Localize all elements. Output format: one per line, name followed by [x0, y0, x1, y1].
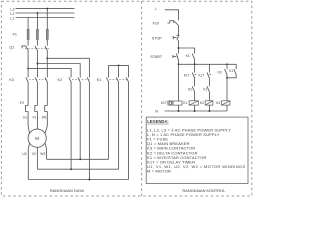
contactor K2 linkage dashed [72, 79, 89, 81]
wire rung 2 middle [194, 78, 196, 87]
wire W1 lead into motor [45, 121, 47, 133]
node dot phase 3 branch tap [46, 57, 48, 59]
wire U2 run to K1 right [28, 179, 128, 181]
wire rung 4 left lower [226, 74, 228, 77]
node dot bus at rung 1 [178, 63, 180, 65]
node junction dot L3 tap [46, 8, 48, 10]
contactor K2 blade 1 [69, 77, 71, 82]
overload relay F2 jog 3 [45, 106, 48, 122]
svg-text:K1T: K1T [184, 73, 190, 77]
wire K1 star bridge bus [109, 64, 129, 66]
breaker Q1 linkage dashed [25, 47, 50, 49]
svg-text:L3: L3 [10, 7, 14, 11]
wire U1 lead into motor [28, 121, 30, 134]
svg-text:U1: U1 [23, 116, 27, 120]
pushbutton STOP actuator [172, 36, 174, 39]
contactor K1 blade 2 [116, 77, 118, 82]
wire K1 left pole upper [108, 65, 110, 77]
wire V2 lead out of motor [36, 147, 38, 169]
legend box [146, 117, 248, 183]
svg-text:V2: V2 [32, 152, 36, 156]
node dot N at rung 2 [194, 110, 196, 112]
wire L3 bus [16, 8, 75, 10]
wire seal branch top [179, 48, 195, 54]
contactor K3 blade 2 [35, 77, 37, 82]
wire phase 1 Q1 to K3 [27, 51, 29, 78]
svg-text:L: L [155, 7, 157, 11]
wire N line [165, 110, 228, 112]
coil K1T clock circle [169, 102, 172, 105]
svg-text:F10: F10 [153, 22, 159, 26]
wire rung 3 upper [208, 64, 210, 72]
wire K3 pole 1 lower [27, 82, 29, 106]
contact K1T timed tick rung 3 [209, 73, 211, 75]
svg-text:W1: W1 [42, 116, 47, 120]
wire phase 3 Q1 to K3 [46, 51, 48, 78]
svg-text:L2: L2 [10, 12, 14, 16]
node dot K2 left joins V2 run [70, 168, 72, 170]
svg-text:K1T: K1T [199, 73, 205, 77]
wire rung 4 right branch [235, 64, 237, 69]
breaker Q1 latch hook [22, 46, 26, 49]
svg-text:LEGENDA:: LEGENDA: [147, 119, 168, 124]
pushbutton STOP contact tick top [176, 34, 179, 36]
wire K1 right pole upper [128, 65, 130, 77]
svg-text:L1: L1 [10, 16, 14, 20]
svg-text:K2: K2 [58, 78, 63, 82]
node dot rung 4 rejoin [226, 77, 228, 79]
contactor K1 linkage dashed [110, 79, 129, 81]
wire rung 2 upper [194, 64, 196, 72]
wire phase 2 fuse to Q1 [36, 39, 38, 45]
coil K2 diagonal [205, 101, 213, 105]
wire START to bus [178, 59, 180, 64]
contact K3 blade rung 4 [225, 69, 227, 75]
contactor K3 linkage dashed [29, 79, 47, 81]
svg-text:K1: K1 [186, 54, 190, 58]
wire L feed [165, 10, 179, 20]
contact K1T timed blade rung 3 [207, 72, 209, 78]
wire K1 middle pole upper [118, 65, 120, 77]
wire rung 1 K1T column [178, 64, 180, 101]
pushbutton START actuator [172, 55, 174, 58]
overload relay F2 jog 1 [26, 106, 29, 122]
node dot bus at rung 4 [226, 63, 228, 65]
coil K3 diagonal [222, 101, 231, 105]
svg-text:K1: K1 [203, 88, 207, 92]
coil K3 body [222, 101, 231, 105]
wire phase 2 Q1 to K3 [36, 51, 38, 78]
wire branch phase 3 to K2 right pole [47, 58, 89, 77]
pushbutton START stem [173, 56, 176, 58]
wire phase 3 drop from L3 [46, 9, 48, 30]
contact K2 interlock blade rung 2 [192, 86, 194, 92]
wire rung 3 middle [208, 78, 210, 87]
wire branch phase 2 to K2 middle pole [37, 64, 80, 78]
fuse F1 pole 3 [46, 29, 48, 39]
node dot N at rung 3 [208, 110, 210, 112]
breaker Q1 blade 1 [26, 46, 28, 51]
pushbutton START blade [176, 53, 178, 59]
node dot seal branch split [178, 47, 180, 49]
svg-text:K1T: K1T [161, 101, 167, 105]
breaker Q1 blade 2 [35, 46, 37, 51]
svg-text:RANGKAIAN DAYA: RANGKAIAN DAYA [50, 188, 84, 193]
wire K2 middle pole lower [79, 82, 81, 159]
svg-text:K2: K2 [200, 101, 204, 105]
svg-text:K3: K3 [218, 70, 222, 74]
svg-text:K1: K1 [229, 69, 233, 73]
contact K1 seal blade [192, 54, 194, 60]
wire L1 bus [16, 17, 75, 19]
wire K1 middle pole lower [118, 82, 120, 169]
svg-text:K3: K3 [9, 78, 14, 82]
node dot bus at rung 2 [194, 63, 196, 65]
node dot phase 2 branch tap [36, 63, 38, 65]
wire K2 left pole lower [70, 82, 72, 169]
wire phase 1 drop from L1 [27, 18, 29, 30]
wire U2 lead out of motor [28, 143, 29, 180]
wire phase 2 drop from L2 [36, 13, 38, 29]
wire F10 to STOP [178, 25, 180, 35]
panel divider dashed line [141, 1, 143, 196]
svg-text:W2: W2 [40, 152, 45, 156]
node dot K2 middle joins W2 run [79, 158, 81, 160]
coil K1T clock box [168, 101, 173, 105]
pushbutton STOP blade [177, 35, 179, 40]
contactor K3 blade 1 [26, 77, 28, 82]
contactor K2 blade 3 [87, 77, 89, 82]
svg-text:RANGKAIAN KONTROL: RANGKAIAN KONTROL [183, 188, 227, 193]
wire L2 bus [16, 12, 75, 14]
contact K1T timed blade rung 2 [192, 72, 194, 78]
svg-text:K2: K2 [188, 88, 192, 92]
svg-text:F1: F1 [13, 32, 17, 36]
wire W2 run to K1 left [47, 158, 109, 160]
fuse F1 pole 1 [27, 29, 29, 39]
wire W2 lead out of motor [45, 143, 47, 159]
svg-text:STOP: STOP [152, 36, 163, 40]
wire seal to bus [194, 59, 196, 64]
fuse F1 pole 2 [36, 29, 38, 39]
wire rung 3 lower [208, 92, 210, 101]
node dot phase 1 branch tap [27, 67, 29, 69]
wire STOP to junction [178, 40, 180, 53]
wire K2 coil to N [208, 105, 210, 111]
svg-text:Q1: Q1 [9, 46, 14, 50]
coil K2 body [205, 101, 213, 105]
node junction dot L2 tap [36, 12, 38, 14]
svg-text:V1: V1 [32, 116, 36, 120]
wire V1 lead into motor [36, 121, 38, 129]
svg-text:M = MOTOR: M = MOTOR [147, 169, 171, 174]
wire rung 4 to coil [226, 78, 228, 101]
svg-text:N: N [155, 110, 158, 114]
svg-text:U2: U2 [22, 152, 26, 156]
coil K1T body [173, 101, 182, 105]
wire K1 right pole lower [128, 82, 130, 180]
wire branch phase 1 to K2 left pole [28, 68, 71, 77]
wire K1 left pole lower [108, 82, 110, 159]
wire K3 pole 2 lower [36, 82, 38, 106]
breaker F10 blade [174, 21, 179, 25]
wire K1T coil to N [178, 105, 180, 111]
svg-text:K3: K3 [216, 101, 220, 105]
wire K3 pole 3 lower [46, 82, 48, 106]
pushbutton STOP stem [173, 37, 177, 39]
svg-text:K1: K1 [97, 78, 102, 82]
outer dashed border frame [1, 1, 251, 196]
svg-text:F2: F2 [20, 101, 24, 105]
wire K1 coil to N [194, 105, 196, 111]
contactor K2 blade 2 [78, 77, 80, 82]
breaker F10 thermal bump [167, 21, 173, 23]
node dot K1 bus middle [118, 64, 120, 66]
wire phase 3 fuse to Q1 [46, 39, 48, 45]
contactor K1 blade 1 [106, 77, 108, 82]
wire K3 coil to N [226, 105, 228, 111]
motor M circle [28, 129, 46, 147]
wire rung 4 left upper [226, 64, 228, 69]
svg-text:START: START [150, 55, 162, 59]
breaker Q1 blade 3 [45, 46, 47, 51]
coil K1 diagonal [189, 101, 198, 105]
contact K1 blade rung 4 right [234, 69, 236, 75]
wire V2 run to K1 middle [37, 168, 118, 170]
overload relay F2 jog 2 [35, 106, 38, 122]
wire control bus [179, 63, 237, 65]
contactor K1 blade 3 [126, 77, 128, 82]
wire rung 4 right lower [227, 74, 236, 77]
contact K1T timed tick rung 2 [195, 73, 197, 75]
contactor K3 blade 3 [45, 77, 47, 82]
contact K1 interlock blade rung 3 [207, 86, 209, 92]
svg-text:K1: K1 [183, 101, 187, 105]
node dot N at rung 1 [178, 110, 180, 112]
svg-text:M: M [35, 136, 39, 141]
coil K1 body [189, 101, 198, 105]
wire K2 right pole lower [88, 82, 90, 180]
wire rung 2 lower [194, 92, 196, 101]
wire phase 1 fuse to Q1 [27, 39, 29, 45]
node dot K2 right joins U2 run [88, 179, 90, 181]
